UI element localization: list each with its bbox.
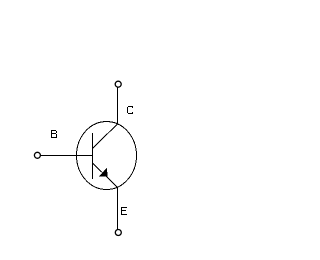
transistor Q1 body circle	[77, 122, 137, 190]
wire base	[40, 155, 92, 157]
collector diagonal inside Q1	[93, 124, 118, 148]
emitter diagonal inside Q1	[93, 163, 118, 187]
terminal pin C	[115, 81, 121, 87]
base bar of Q1	[92, 133, 94, 179]
wire collector lead	[117, 88, 119, 125]
emitter arrow (NPN)	[99, 168, 108, 177]
label C	[127, 106, 133, 114]
label E	[121, 207, 127, 215]
label B	[51, 130, 57, 138]
terminal pin B	[34, 152, 40, 158]
terminal pin E	[115, 230, 121, 236]
wire emitter lead	[117, 187, 119, 229]
